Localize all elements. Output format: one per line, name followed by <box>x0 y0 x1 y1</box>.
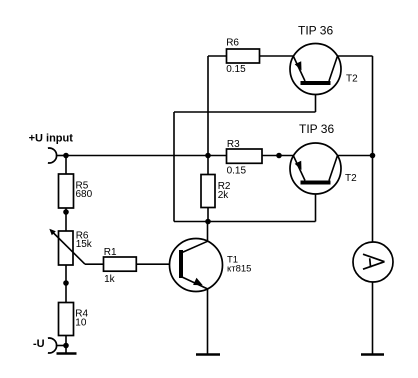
wire T2 lower collector to right rail <box>337 155 372 157</box>
resistor R6 variable 15k <box>49 229 93 265</box>
node +U input terminal <box>48 148 66 163</box>
wire R6 bottom to R4 top <box>65 265 67 303</box>
svg-text:кт815: кт815 <box>227 264 251 275</box>
node line A +U rail junction dot <box>205 153 211 159</box>
resistor R4 <box>59 303 89 336</box>
transistor T2 upper TIP 36 <box>290 23 358 94</box>
svg-text:0.15: 0.15 <box>226 64 246 75</box>
ground bottom-right <box>361 353 384 356</box>
svg-text:680: 680 <box>76 189 93 200</box>
ground bottom-left <box>57 352 77 355</box>
node +U junction dot <box>63 153 69 159</box>
wire right rail down to ammeter <box>372 56 374 242</box>
wire R5 top lead <box>65 156 67 175</box>
svg-text:2k: 2k <box>218 190 230 201</box>
svg-text:R6: R6 <box>226 38 239 49</box>
node R3 output junction dot <box>276 153 282 159</box>
svg-text:TIP 36: TIP 36 <box>298 23 333 37</box>
wire T2 upper base run <box>174 85 316 222</box>
transistor T2 lower TIP 36 <box>290 122 357 194</box>
node R2-T1 collector junction dot <box>205 219 211 225</box>
wire T1 emitter down to ground <box>207 289 209 354</box>
wire R3 to T2 lower emitter <box>262 155 294 157</box>
wire R5 to R6 <box>65 208 67 231</box>
wire R4 bottom lead <box>65 336 67 353</box>
node R6-R4 junction dot <box>63 280 69 286</box>
wire R6 to T2 upper emitter <box>260 55 294 57</box>
node R5-R6 junction dot <box>63 209 69 215</box>
wire ammeter to ground <box>372 282 374 354</box>
svg-text:R3: R3 <box>227 139 240 150</box>
wire node B horizontal: bases and T1 collector <box>174 221 316 223</box>
resistor R6 0.15 top <box>226 38 259 75</box>
wire T2 lower base drop <box>315 185 317 222</box>
transistor T1 kt815 <box>170 239 252 292</box>
wire T2 upper collector to right rail <box>337 55 372 57</box>
wire R2 bottom lead <box>207 208 209 222</box>
svg-text:+U input: +U input <box>29 133 74 145</box>
wire T1 collector up to node B <box>207 222 209 242</box>
svg-text:T2: T2 <box>346 74 358 85</box>
svg-text:-U: -U <box>33 338 45 350</box>
svg-text:T2: T2 <box>345 173 357 184</box>
resistor R5 <box>59 174 93 208</box>
node right rail junction dot <box>370 153 376 159</box>
svg-text:15k: 15k <box>76 239 93 250</box>
node -U junction dot <box>63 343 69 349</box>
svg-text:R1: R1 <box>104 247 117 258</box>
svg-text:TIP 36: TIP 36 <box>299 122 334 136</box>
ground under T1 <box>196 353 220 356</box>
wire R1 to T1 base <box>136 263 179 265</box>
svg-text:10: 10 <box>75 317 87 328</box>
ammeter A <box>353 242 393 282</box>
wire R6 wiper to R1 <box>85 263 104 265</box>
wire +U input horizontal rail to R3 <box>66 155 227 157</box>
svg-text:0.15: 0.15 <box>227 166 247 177</box>
resistor R2 <box>201 175 231 208</box>
resistor R3 <box>227 139 263 177</box>
node -U terminal <box>48 338 66 353</box>
resistor R1 <box>104 247 137 285</box>
svg-text:1k: 1k <box>104 274 116 285</box>
wire line A: R6 left lead down through +U rail to R2 <box>208 56 227 175</box>
